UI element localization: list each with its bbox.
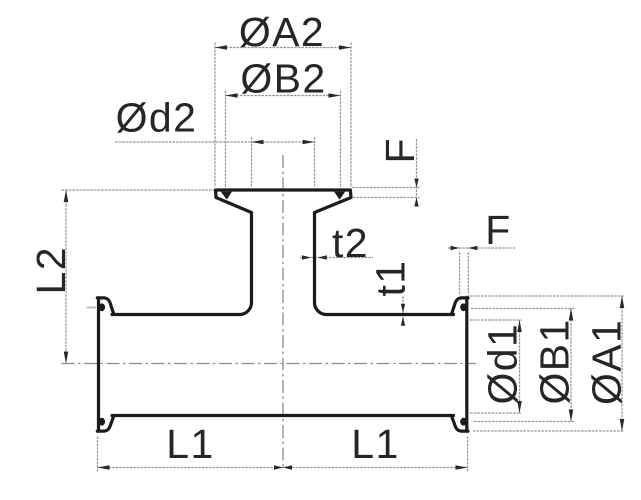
svg-text:t2: t2 <box>332 220 369 266</box>
arrowheads <box>64 45 625 470</box>
dim line L2 <box>65 190 67 364</box>
centerline horizontal body axis <box>62 363 477 365</box>
arrows dia A1 <box>620 296 625 308</box>
groove right flange bottom <box>460 418 467 426</box>
ext lines dia d2 <box>251 137 253 187</box>
groove right flange top <box>460 303 467 311</box>
tee body outline <box>97 190 468 431</box>
arrows dia B1 <box>569 309 574 321</box>
svg-text:ØB1: ØB1 <box>532 318 578 404</box>
dim line t2 <box>300 257 373 259</box>
svg-text:Ød1: Ød1 <box>480 323 526 405</box>
left flange face <box>97 298 100 431</box>
groove marks <box>99 192 467 426</box>
body bottom line <box>112 414 454 417</box>
dim line dia A1 <box>621 296 623 431</box>
arrows L1 <box>98 465 110 470</box>
ext line L2 top <box>62 189 216 191</box>
dim line dia A2 <box>215 47 351 49</box>
ext lines F right flange <box>459 252 461 294</box>
ext lines dia A1 <box>467 295 625 297</box>
arrows F top flange <box>414 179 418 188</box>
centerline vertical branch axis <box>282 155 284 470</box>
svg-text:ØB2: ØB2 <box>240 56 326 102</box>
right flange face <box>465 298 468 431</box>
arrows dia B2 <box>226 93 238 98</box>
svg-text:L1: L1 <box>166 421 214 467</box>
dim line t1 <box>402 296 404 326</box>
arrows dia d1 <box>517 320 522 332</box>
ext lines dia B2 <box>225 91 227 188</box>
dim line F top flange <box>416 139 418 206</box>
arrows F right flange <box>451 246 460 250</box>
groove left flange bottom <box>99 418 106 426</box>
svg-text:ØA2: ØA2 <box>239 9 325 55</box>
svg-text:L1: L1 <box>351 421 399 467</box>
ext lines dia B1 <box>471 308 575 310</box>
arrows dia d2 <box>252 140 264 145</box>
thin extension and dimension lines <box>62 43 625 473</box>
left flange bottom bead <box>97 416 114 431</box>
dim line dia d2 with leader to label <box>115 141 315 143</box>
groove branch flange right <box>334 192 345 200</box>
dim line dia B2 <box>226 95 341 97</box>
ext lines L1 <box>97 437 99 473</box>
body top line right segment <box>327 313 454 316</box>
ext lines dia d1 <box>470 319 522 321</box>
groove left flange top <box>99 303 106 311</box>
dim line dia B1 <box>570 309 572 422</box>
left flange top bead <box>97 298 114 314</box>
arrows t1 <box>401 304 405 313</box>
svg-text:F: F <box>377 137 423 163</box>
svg-text:Ød2: Ød2 <box>116 95 198 141</box>
svg-text:ØA1: ØA1 <box>584 319 630 405</box>
dim line dia d1 <box>519 320 521 413</box>
svg-text:t1: t1 <box>368 260 414 297</box>
dim line F right flange <box>448 247 515 249</box>
arrows dia A2 <box>215 45 227 50</box>
ext lines dia A2 <box>214 43 216 188</box>
svg-text:L2: L2 <box>28 246 74 294</box>
svg-text:F: F <box>485 207 511 253</box>
body top line left segment <box>112 313 240 316</box>
leader artifact left flange <box>87 307 97 309</box>
right flange top bead <box>452 298 469 314</box>
branch outline with flange and weld fillets <box>216 190 351 315</box>
arrows t2 <box>302 255 311 259</box>
right flange bottom bead <box>452 416 469 431</box>
groove branch flange left <box>221 192 232 200</box>
dim line L1 <box>98 467 468 469</box>
arrows L2 <box>64 190 69 202</box>
ext lines F top flange <box>352 187 420 189</box>
